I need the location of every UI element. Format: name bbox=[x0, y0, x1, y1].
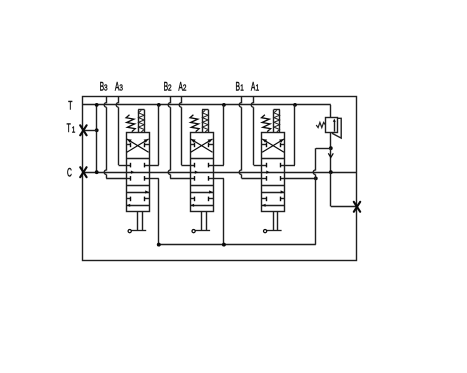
valve V2 parallel position bbox=[190, 190, 213, 207]
valve V3 crossed position bbox=[126, 139, 149, 152]
valve V1 crossed position bbox=[262, 139, 285, 152]
svg-text:2: 2 bbox=[183, 83, 187, 93]
lever actuator section 2 bbox=[192, 212, 210, 233]
valve V3 body bbox=[126, 133, 149, 212]
valve V2 neutral position bbox=[190, 163, 213, 181]
valve V3 parallel position bbox=[126, 190, 149, 207]
svg-text:3: 3 bbox=[119, 83, 123, 93]
spring pocket section 3 bbox=[138, 110, 144, 133]
port T1 stub bbox=[83, 130, 97, 132]
wire bottom drain rail bbox=[157, 243, 316, 247]
return spring section 1 bbox=[262, 115, 271, 132]
wire bottom connector section 1 bbox=[285, 177, 318, 181]
valve V2 crossed position bbox=[190, 139, 213, 152]
wire T line bbox=[83, 105, 331, 118]
wire bottom connector section 2 bbox=[213, 178, 226, 246]
lever actuator section 3 bbox=[128, 212, 146, 233]
plug X at port T1 bbox=[80, 125, 86, 135]
spring pocket section 2 bbox=[202, 110, 208, 133]
valve V1 body bbox=[262, 133, 285, 212]
wire tank connector section 1 bbox=[285, 103, 297, 166]
relief valve outlet with flow arrow bbox=[328, 133, 333, 175]
relief valve spring bbox=[316, 122, 325, 127]
wire relief drain to rail bbox=[313, 148, 331, 244]
port B2 line bbox=[168, 97, 190, 179]
wire C line bbox=[83, 172, 357, 174]
svg-text:C: C bbox=[67, 167, 72, 180]
enclosure boundary box bbox=[83, 97, 357, 261]
wire tank connector section 3 bbox=[149, 103, 161, 166]
port A2 line bbox=[179, 97, 190, 166]
valve V3 neutral position bbox=[126, 163, 149, 181]
svg-text:1: 1 bbox=[72, 125, 76, 135]
wire tank connector section 2 bbox=[213, 103, 226, 166]
valve V2 body bbox=[190, 133, 213, 212]
port B3 line bbox=[104, 97, 126, 179]
port B1 line bbox=[239, 97, 261, 179]
svg-text:3: 3 bbox=[104, 83, 108, 93]
return spring section 3 bbox=[126, 115, 135, 132]
svg-text:2: 2 bbox=[168, 83, 172, 93]
wire power-beyond branch bbox=[331, 172, 358, 206]
svg-text:B: B bbox=[236, 81, 240, 94]
port A1 line bbox=[251, 97, 261, 166]
valve V1 parallel position bbox=[262, 190, 285, 207]
plug X at port C bbox=[80, 167, 86, 177]
port A3 line bbox=[116, 97, 126, 166]
wire bottom connector section 3 bbox=[149, 178, 161, 246]
plug X at power-beyond port bbox=[354, 202, 360, 212]
relief valve pilot flag bbox=[332, 118, 341, 138]
spring pocket section 1 bbox=[274, 110, 280, 133]
wire left connector T-T1-C bbox=[95, 103, 99, 174]
valve V1 neutral position bbox=[262, 163, 285, 181]
relief valve RV body bbox=[326, 118, 338, 133]
lever actuator section 1 bbox=[264, 212, 282, 233]
svg-text:T: T bbox=[67, 122, 71, 135]
svg-text:1: 1 bbox=[240, 83, 244, 93]
svg-text:T: T bbox=[68, 100, 72, 113]
svg-text:1: 1 bbox=[256, 83, 260, 93]
return spring section 2 bbox=[190, 115, 199, 132]
